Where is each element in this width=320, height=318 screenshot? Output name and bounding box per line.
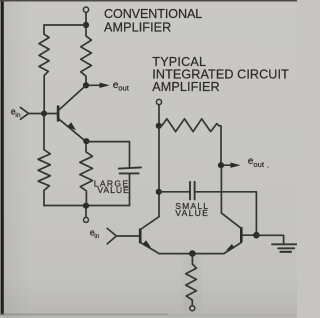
svg-text:CONVENTIONAL: CONVENTIONAL: [104, 7, 202, 21]
svg-text:VALUE: VALUE: [175, 208, 209, 218]
label: SMALL VALUE: [175, 201, 209, 218]
svg-text:in: in: [94, 233, 99, 240]
wire Q3 emitter: [192, 243, 241, 254]
supply terminal (open circle) top: [83, 7, 88, 12]
label: e_out (circuit 1): [113, 80, 130, 93]
svg-text:VALUE: VALUE: [97, 185, 129, 195]
wire to bottom terminal: [85, 208, 87, 217]
node: capacitor left dot: [156, 189, 162, 195]
transistor Q2 bar: [139, 228, 142, 243]
svg-text:out: out: [253, 160, 264, 169]
resistor R1 (upper left, bias): [39, 25, 49, 114]
bottom terminal 2 (open circle): [190, 306, 195, 311]
label: TYPICAL INTEGRATED CIRCUIT AMPLIFIER: [152, 55, 289, 94]
resistor R3 (lower left): [38, 114, 50, 206]
label: e_in (circuit 2): [90, 228, 100, 240]
transistor Q3 bar: [240, 227, 243, 242]
wire collector rail Q3: [220, 168, 222, 214]
capacitor C1 plates (LARGE VALUE): [119, 167, 141, 168]
label: LARGE VALUE: [94, 179, 130, 196]
capacitor C2 plates (SMALL VALUE): [189, 182, 191, 200]
wire capacitor bottom: [129, 174, 131, 205]
svg-text:AMPLIFIER: AMPLIFIER: [104, 20, 171, 34]
Q2 emitter arrowhead: [143, 240, 151, 247]
arrow to e_out: [89, 84, 101, 86]
wire cap left: [159, 191, 190, 193]
node: common emitter dot: [189, 250, 196, 257]
wire cap right: [195, 192, 257, 235]
label: CONVENTIONAL AMPLIFIER: [104, 7, 202, 34]
border frame top: [0, 0, 297, 2]
node: base junction dot: [41, 111, 47, 117]
node: rail top dot: [156, 123, 162, 129]
wire Q1 collector: [59, 86, 86, 110]
wire left rail down: [158, 126, 160, 217]
border frame left: [1, 0, 4, 315]
e_in arrow chevron: [20, 107, 28, 119]
wire Q2 collector: [141, 216, 160, 229]
node: e_out junction dot: [83, 82, 89, 88]
svg-text:in: in: [15, 112, 20, 119]
svg-text:.: .: [267, 161, 269, 170]
wire terminal to rail: [158, 105, 160, 126]
scan streak near tail resistor: [183, 254, 201, 312]
wire Q1 base: [29, 113, 57, 115]
node: bottom junction dot: [83, 203, 89, 209]
wire to ground: [256, 235, 283, 243]
resistor R5 (horizontal load): [159, 119, 221, 165]
supply terminal 2 (open circle): [156, 99, 161, 104]
node: emitter junction dot: [83, 138, 89, 144]
Q1 emitter arrowhead: [67, 122, 76, 130]
wire Q3 collector: [222, 213, 241, 228]
wire Q3 base to ground node: [243, 234, 257, 236]
resistor R4 (emitter resistor): [80, 145, 93, 206]
wire bottom rail: [44, 205, 130, 207]
e_in2 arrow chevron: [107, 228, 116, 244]
label: e_in (circuit 1): [11, 107, 21, 119]
transistor Q1 bar: [57, 106, 60, 122]
wire to bypass capacitor top: [86, 142, 130, 168]
resistor R7 (tail): [186, 254, 197, 306]
arrow to e_out2: [224, 164, 232, 166]
wire Q2 base: [117, 235, 139, 237]
svg-text:AMPLIFIER: AMPLIFIER: [152, 80, 219, 94]
wire Q1 emitter: [59, 119, 86, 141]
label: e_out (circuit 2): [248, 156, 269, 170]
svg-text:out: out: [118, 83, 129, 92]
node: ground junction dot: [253, 232, 260, 239]
bottom terminal (open circle): [84, 217, 89, 222]
Q3 emitter arrowhead: [226, 244, 235, 251]
wire Q2 emitter: [141, 243, 193, 254]
wire terminal to junction: [85, 12, 87, 25]
border frame bottom faint: [0, 314, 168, 316]
node: supply junction dot: [83, 22, 89, 28]
ground symbol: [272, 243, 296, 245]
resistor R2 (collector load): [81, 28, 92, 85]
node: e_out2 dot: [218, 162, 224, 168]
wire top horizontal: [44, 24, 86, 26]
